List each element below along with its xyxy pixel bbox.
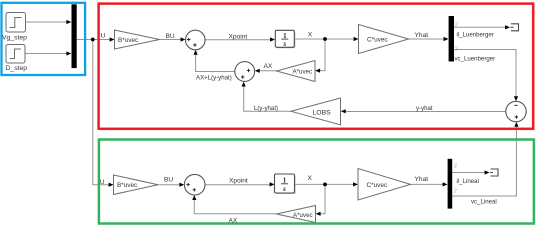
svg-text:2: 2 (454, 164, 457, 170)
svg-text:U: U (101, 32, 106, 39)
svg-text:Yhat: Yhat (415, 176, 429, 183)
svg-text:vc_Lineal: vc_Lineal (471, 199, 497, 206)
svg-text:C*uvec: C*uvec (367, 37, 388, 44)
svg-text:A*uvec: A*uvec (293, 212, 313, 219)
svg-text:L(y-yhat): L(y-yhat) (254, 105, 278, 112)
svg-text:Xpoint: Xpoint (229, 33, 248, 40)
svg-text:D_step: D_step (6, 65, 28, 72)
svg-text:il_Lineal: il_Lineal (457, 178, 479, 185)
svg-text:B*uvec: B*uvec (117, 182, 138, 189)
svg-text:AX: AX (264, 63, 273, 70)
svg-text:X: X (308, 175, 313, 182)
svg-text:2: 2 (454, 189, 457, 195)
svg-text:Yhat: Yhat (415, 32, 429, 39)
svg-text:U: U (100, 179, 105, 186)
svg-text:BU: BU (164, 176, 173, 183)
svg-text:LOBS: LOBS (313, 109, 332, 116)
svg-text:2: 2 (455, 46, 458, 52)
svg-text:y-yhat: y-yhat (416, 105, 433, 112)
svg-text:AX: AX (229, 218, 238, 225)
svg-text:vc_Luenberger: vc_Luenberger (455, 56, 496, 63)
svg-text:Xpoint: Xpoint (229, 177, 248, 184)
svg-text:s: s (282, 39, 286, 48)
svg-text:C*uvec: C*uvec (367, 182, 388, 189)
svg-text:s: s (282, 184, 286, 193)
svg-text:A*uvec: A*uvec (293, 69, 313, 76)
svg-text:X: X (308, 31, 313, 38)
svg-text:B*uvec: B*uvec (118, 37, 139, 44)
svg-text:AX+L(y-yhat): AX+L(y-yhat) (196, 75, 232, 82)
svg-text:il_Luenberger: il_Luenberger (457, 32, 494, 39)
svg-text:2: 2 (455, 22, 458, 28)
svg-text:Vg_step: Vg_step (2, 34, 27, 41)
svg-text:BU: BU (166, 33, 175, 40)
